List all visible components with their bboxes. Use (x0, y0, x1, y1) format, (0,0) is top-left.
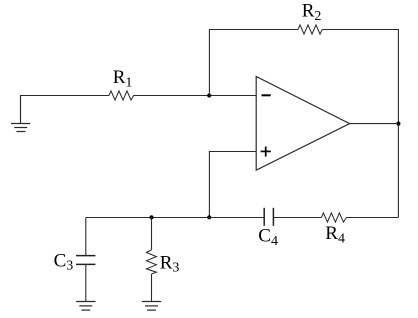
ground (142, 302, 161, 311)
wire (output) (350, 123, 399, 125)
resistor R2 (298, 0, 322, 34)
wire (347, 217, 399, 219)
ground (76, 302, 95, 311)
node C (bottom junction at + branch) (207, 215, 211, 219)
wire (209, 30, 298, 96)
capacitor C4 (258, 208, 278, 249)
resistor R4 (321, 213, 346, 247)
node D (R3 junction) (149, 215, 153, 219)
wire (397, 124, 399, 218)
capacitor C3 (54, 218, 96, 302)
op-amp U1 (256, 77, 349, 171)
wire (134, 95, 257, 97)
wire (322, 30, 398, 124)
wire (273, 217, 321, 219)
wire (bottom left) (86, 217, 264, 219)
wire (21, 95, 110, 97)
resistor R1 (109, 67, 134, 100)
node B (output junction) (396, 122, 400, 126)
ground (11, 95, 30, 132)
node A (inverting input junction) (207, 93, 211, 97)
wire (non-inverting input) (209, 152, 256, 218)
resistor R3 (146, 218, 179, 302)
